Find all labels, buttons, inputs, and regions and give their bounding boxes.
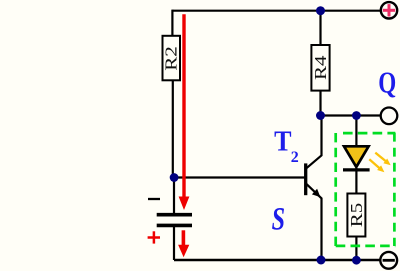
svg-text:T: T [274, 125, 291, 157]
svg-text:2: 2 [291, 149, 299, 166]
red current arrow short [178, 230, 189, 257]
minus label [148, 198, 160, 200]
junction node emitter bottom [317, 256, 326, 265]
svg-text:R5: R5 [347, 203, 366, 228]
terminal minus supply [380, 252, 397, 269]
label T2 [274, 125, 299, 166]
junction node LED top [352, 111, 361, 120]
wire left rail upper [172, 10, 174, 213]
wire left rail lower [173, 227, 175, 260]
terminal Q output [381, 108, 398, 125]
transistor T2 [306, 116, 322, 261]
resistor R4 [311, 45, 330, 91]
wire bottom rail [174, 259, 380, 262]
wire Q output [321, 114, 381, 116]
svg-text:R4: R4 [311, 55, 330, 80]
svg-text:Q: Q [378, 64, 396, 99]
resistor R2 [162, 36, 181, 81]
junction node R5 bottom [352, 256, 361, 265]
wire LED column [355, 116, 357, 261]
wire R4 column [319, 11, 321, 116]
LED light arrows [369, 153, 390, 173]
capacitor S plates [157, 215, 192, 226]
junction node collector [316, 111, 325, 120]
svg-text:S: S [272, 202, 285, 238]
green dashed enclosure [336, 133, 396, 246]
wire base [174, 176, 305, 178]
resistor R5 [347, 194, 366, 237]
plus label [148, 231, 160, 243]
red current arrow long [179, 14, 190, 210]
terminal plus supply [381, 2, 397, 18]
LED D1 [343, 146, 370, 170]
junction node top [316, 6, 325, 15]
svg-text:R2: R2 [162, 46, 181, 71]
junction node base [170, 173, 179, 182]
wire top rail [172, 10, 380, 12]
